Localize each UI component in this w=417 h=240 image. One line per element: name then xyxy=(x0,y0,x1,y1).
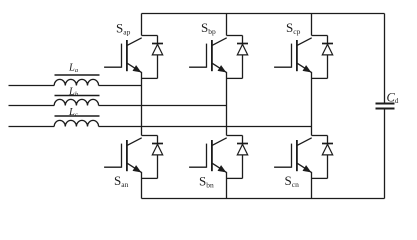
wire: leg b mid vertical xyxy=(226,72,228,136)
svg-text:Sap: Sap xyxy=(116,21,131,37)
svg-text:Lc: Lc xyxy=(68,107,78,119)
svg-text:Cd: Cd xyxy=(387,91,399,106)
wire: leg a top collector node xyxy=(142,35,158,37)
wire: leg a bottom emitter node xyxy=(142,177,158,179)
IGBT Scp xyxy=(274,38,312,73)
wire: phase b to leg b midpoint xyxy=(99,105,227,107)
wire: phase c input segment xyxy=(9,126,55,128)
IGBT Sbp xyxy=(189,38,227,73)
inductor Lb xyxy=(54,96,99,106)
wire: leg b top collector node xyxy=(227,35,243,37)
wire: phase a to leg a midpoint xyxy=(99,85,142,87)
inductor Lc xyxy=(54,116,99,127)
diode Dcn xyxy=(322,136,333,179)
IGBT Sap xyxy=(104,38,142,73)
wire: leg a bottom collector node xyxy=(142,135,158,137)
wire: bottom DC rail xyxy=(142,198,385,200)
svg-text:Sbn: Sbn xyxy=(199,174,214,190)
inductor La xyxy=(54,75,99,86)
wire: leg c bottom collector node xyxy=(312,135,328,137)
wire: leg b top riser xyxy=(226,14,228,36)
wire: leg c top riser xyxy=(311,14,313,36)
wire: phase a input segment xyxy=(9,85,55,87)
svg-text:Scn: Scn xyxy=(285,173,300,189)
wire: leg b top emitter node xyxy=(227,77,243,79)
capacitor Cd xyxy=(376,104,395,109)
svg-text:San: San xyxy=(114,173,129,189)
diode Dbn xyxy=(237,136,248,179)
wire: leg b bottom emitter node xyxy=(227,177,243,179)
wire: leg b bottom collector node xyxy=(227,135,243,137)
svg-text:Lb: Lb xyxy=(68,87,79,99)
wire: leg a top riser xyxy=(141,14,143,36)
wire: leg c top collector node xyxy=(312,35,328,37)
IGBT San xyxy=(104,138,142,173)
diode Dbp xyxy=(237,36,248,79)
diode Dap xyxy=(152,36,163,79)
diode Dcp xyxy=(322,36,333,79)
svg-text:Sbp: Sbp xyxy=(201,20,216,36)
wire: phase c to leg c midpoint xyxy=(99,126,312,128)
wire: leg a mid vertical xyxy=(141,72,143,136)
IGBT Scn xyxy=(274,138,312,173)
wire: leg c top emitter node xyxy=(312,77,328,79)
wire: leg c bottom emitter node xyxy=(312,177,328,179)
svg-text:La: La xyxy=(68,63,78,75)
diode Dan xyxy=(152,136,163,179)
wire: top DC rail xyxy=(142,13,385,15)
wire: leg b bottom emitter to rail xyxy=(226,172,228,199)
wire: leg c bottom emitter to rail xyxy=(311,172,313,199)
wire: leg a bottom emitter to rail xyxy=(141,172,143,199)
wire: leg c mid vertical xyxy=(311,72,313,136)
wire: leg a top emitter node xyxy=(142,77,158,79)
IGBT Sbn xyxy=(189,138,227,173)
wire: DC bus negative vertical xyxy=(384,110,386,199)
wire: phase b input segment xyxy=(9,105,55,107)
svg-text:Scp: Scp xyxy=(286,20,301,36)
wire: DC bus positive vertical xyxy=(384,14,386,103)
